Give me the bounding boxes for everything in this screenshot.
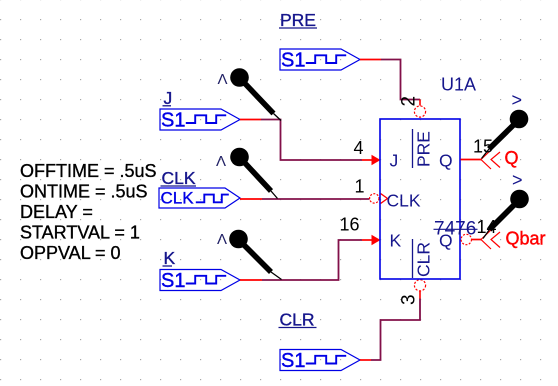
svg-text:CLK: CLK (161, 189, 195, 208)
svg-text:S1: S1 (281, 350, 305, 372)
stimulus S1 (CLR) (280, 350, 360, 373)
svg-text:1: 1 (355, 177, 365, 197)
wire J stimulus to pin 4 (240, 120, 362, 161)
svg-text:U1A: U1A (441, 75, 476, 95)
svg-text:>: > (512, 170, 523, 190)
pin 14 (Qbar output) with bubble (461, 217, 500, 249)
svg-text:Q: Q (439, 151, 453, 171)
flip-flop U1A body (380, 119, 460, 279)
svg-text:J: J (390, 151, 399, 171)
wire CLK stimulus to pin 1 (240, 198, 370, 200)
svg-text:S1: S1 (161, 270, 185, 292)
svg-text:Λ: Λ (217, 231, 227, 248)
svg-text:S1: S1 (161, 110, 185, 132)
pin 15 (Q output) (461, 137, 501, 170)
svg-text:PRE: PRE (280, 10, 316, 30)
svg-text:OFFTIME = .5uS: OFFTIME = .5uS (20, 161, 157, 181)
pin name PRE (vertical, with overline) (413, 129, 434, 168)
wire K stimulus to pin 16 (240, 240, 362, 280)
pin name CLR (vertical, with overline) (413, 239, 434, 278)
svg-text:Q: Q (505, 148, 519, 168)
pin 16 (K input) (340, 215, 381, 246)
svg-text:PRE: PRE (414, 131, 434, 167)
parameter text block (20, 161, 157, 263)
pin 4 (J input) (354, 138, 381, 165)
net label K (163, 248, 176, 268)
wire PRE stimulus to pin 2 (360, 60, 420, 100)
pin 1 (CLK input) with bubble and clock wedge (355, 177, 388, 204)
svg-text:4: 4 (354, 138, 364, 158)
net label J (163, 88, 173, 108)
svg-text:Λ: Λ (216, 153, 226, 170)
svg-text:16: 16 (340, 215, 360, 235)
svg-text:ONTIME = .5uS: ONTIME = .5uS (20, 182, 148, 202)
svg-text:S1: S1 (281, 50, 305, 72)
svg-text:Λ: Λ (218, 71, 228, 88)
stimulus S1 (PRE) (280, 49, 360, 72)
net label CLK (161, 168, 197, 188)
voltage marker probe on K wire (217, 230, 282, 280)
svg-text:CLK: CLK (162, 168, 196, 188)
pin 3 (CLR input, bottom) (399, 280, 426, 305)
voltage marker probe on CLK wire (216, 148, 278, 199)
voltage marker probe on Qbar (483, 170, 529, 239)
svg-text:>: > (512, 90, 523, 110)
pin 2 (PRE input, top) (399, 96, 426, 117)
svg-text:Qbar: Qbar (506, 229, 546, 249)
svg-text:CLK: CLK (387, 191, 421, 211)
stimulus S1 (K) (160, 270, 240, 293)
voltage marker probe on J wire (218, 68, 282, 120)
svg-text:STARTVAL = 1: STARTVAL = 1 (20, 223, 140, 243)
svg-text:K: K (390, 231, 402, 251)
net label PRE (279, 10, 317, 30)
stimulus S1 (J) (160, 109, 240, 132)
svg-text:3: 3 (399, 294, 420, 305)
svg-text:J: J (164, 88, 173, 108)
svg-text:OPPVAL = 0: OPPVAL = 0 (20, 243, 121, 263)
part number 7476 (434, 219, 478, 240)
svg-text:CLR: CLR (414, 242, 434, 277)
svg-text:2: 2 (399, 96, 420, 107)
svg-text:CLR: CLR (280, 310, 315, 330)
wire CLR stimulus to pin 3 (360, 299, 420, 361)
svg-text:K: K (164, 248, 176, 268)
stimulus CLK (159, 188, 240, 208)
svg-text:DELAY =: DELAY = (20, 202, 93, 222)
voltage marker probe on Q (482, 90, 529, 159)
pin name Qbar (with overline) (439, 231, 453, 251)
svg-text:Q: Q (439, 231, 453, 251)
net label CLR (279, 310, 317, 330)
